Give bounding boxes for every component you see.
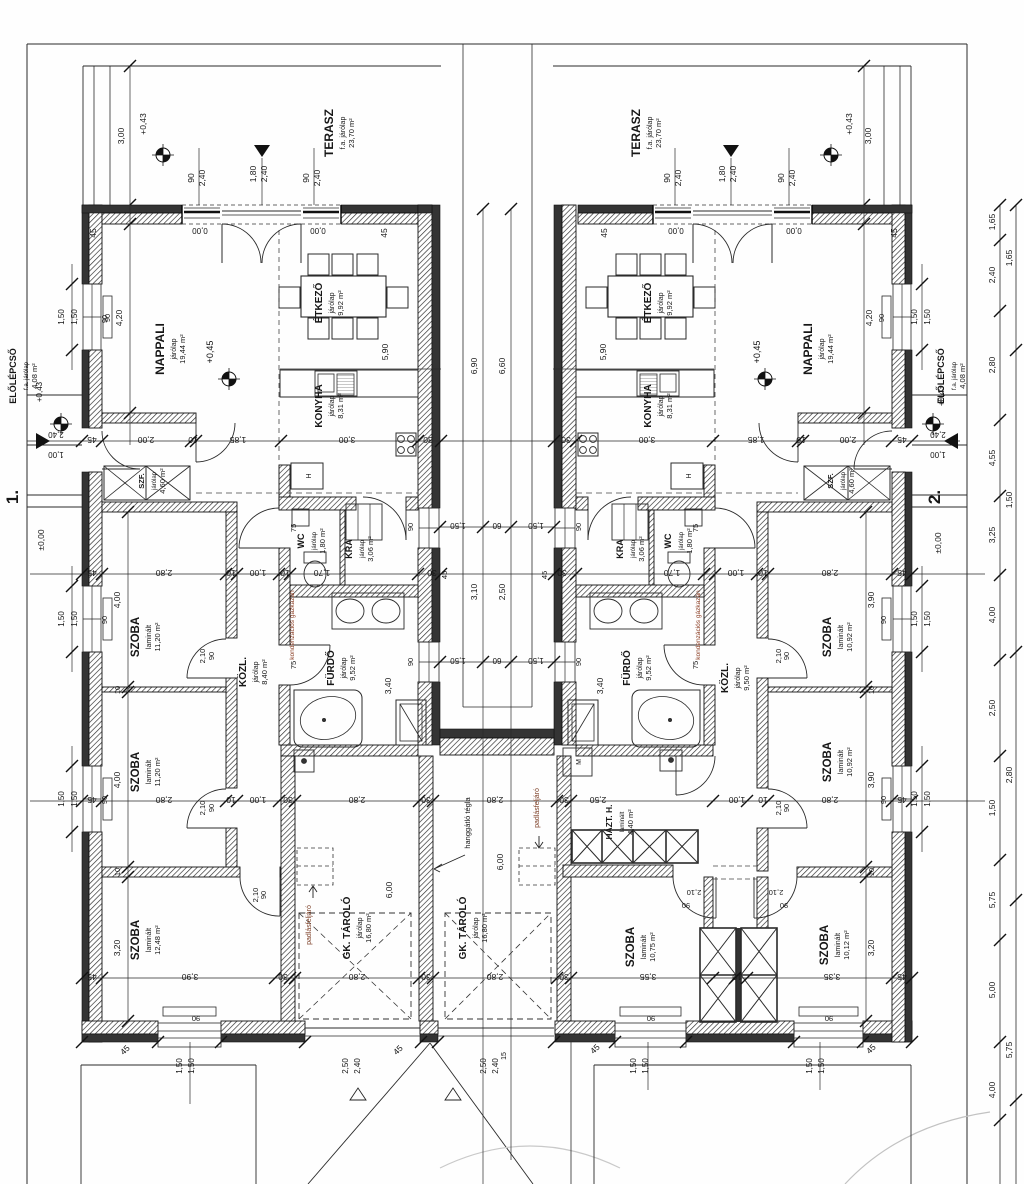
level mark terrace left (152, 144, 174, 166)
svg-text:90: 90 (825, 1014, 833, 1023)
svg-text:3,20: 3,20 (866, 939, 876, 956)
right exterior outer chain (1015, 205, 1017, 1184)
section dashed line left (196, 492, 418, 494)
svg-text:2,80: 2,80 (821, 795, 838, 805)
north wall left unit (82, 205, 182, 213)
svg-text:60: 60 (492, 521, 501, 530)
svg-text:1,50: 1,50 (57, 611, 66, 627)
svg-text:2,50: 2,50 (341, 1058, 350, 1074)
svg-text:3,90: 3,90 (866, 771, 876, 788)
dim row C line (30, 800, 985, 802)
svg-text:3,00: 3,00 (863, 127, 873, 144)
svg-text:járólap: járólap (735, 667, 742, 689)
svg-text:9,92 m²: 9,92 m² (336, 290, 345, 316)
svg-text:90: 90 (259, 891, 268, 899)
svg-text:90: 90 (574, 523, 583, 531)
svg-text:kondenzációs gázkazán: kondenzációs gázkazán (289, 590, 296, 660)
wall vestibule north left (102, 413, 196, 423)
svg-text:kondenzációs gázkazán: kondenzációs gázkazán (695, 590, 702, 660)
svg-text:23,70 m²: 23,70 m² (654, 118, 663, 148)
svg-text:2,50: 2,50 (479, 1058, 488, 1074)
stove left (396, 433, 416, 456)
svg-text:1,50: 1,50 (923, 309, 932, 325)
svg-text:1.: 1. (3, 490, 22, 504)
dashed wall line over terrace door left (182, 204, 341, 206)
svg-text:1,50: 1,50 (57, 309, 66, 325)
svg-text:90: 90 (782, 652, 791, 660)
svg-text:2,80: 2,80 (155, 795, 172, 805)
svg-text:45: 45 (87, 435, 97, 445)
svg-text:2,40: 2,40 (353, 1058, 362, 1074)
svg-text:SZOBA: SZOBA (625, 927, 637, 967)
site boundary (27, 43, 967, 45)
svg-text:járólap: járólap (341, 657, 348, 679)
svg-text:laminált: laminált (146, 625, 153, 649)
svg-text:3,90: 3,90 (866, 591, 876, 608)
corridor stub walls right (704, 877, 713, 928)
svg-text:1,50: 1,50 (70, 791, 79, 807)
svg-text:4,60 m²: 4,60 m² (158, 468, 167, 494)
utility wardrobe right (572, 830, 698, 863)
window szoba south right a (615, 1023, 686, 1047)
svg-text:SZOBA: SZOBA (130, 752, 142, 792)
svg-text:TERASZ: TERASZ (629, 109, 643, 157)
svg-text:GK. TÁROLÓ: GK. TÁROLÓ (456, 896, 469, 959)
svg-text:4,00: 4,00 (112, 771, 122, 788)
svg-text:2,40: 2,40 (259, 165, 269, 182)
svg-text:1,00: 1,00 (728, 795, 745, 805)
window szoba3 south left (158, 1023, 221, 1047)
wall szoba1/szoba2 right (768, 687, 892, 692)
level arrow right (944, 433, 958, 449)
svg-text:SZOBA: SZOBA (822, 742, 834, 782)
terrace french door right (692, 224, 694, 263)
gk storage cross left (299, 913, 411, 1019)
svg-text:WC: WC (663, 533, 673, 548)
svg-text:5,75: 5,75 (987, 891, 997, 908)
svg-text:2,40: 2,40 (491, 1058, 500, 1074)
dim row A line (27, 440, 960, 442)
svg-text:10: 10 (113, 868, 122, 876)
svg-text:16,80 m²: 16,80 m² (364, 913, 373, 943)
svg-text:járólap: járólap (329, 395, 336, 417)
svg-text:4,20: 4,20 (864, 309, 874, 326)
washing machine symbol right unit (563, 748, 592, 776)
svg-text:1,50: 1,50 (910, 611, 919, 627)
wc toilet left (304, 561, 326, 587)
radiator nappali west (103, 296, 112, 338)
svg-text:1,50: 1,50 (57, 791, 66, 807)
svg-text:1,50: 1,50 (450, 656, 466, 665)
svg-text:10,92 m²: 10,92 m² (845, 747, 854, 777)
bathroom north wall right (576, 585, 704, 597)
svg-text:1,80 m²: 1,80 m² (318, 528, 327, 554)
terrace door closed line left (222, 210, 301, 212)
svg-text:75: 75 (289, 524, 298, 532)
door szoba 10,12 right (753, 877, 755, 918)
svg-text:1,80: 1,80 (717, 165, 727, 182)
svg-text:1,00: 1,00 (930, 450, 946, 459)
svg-text:1,85: 1,85 (747, 435, 764, 445)
svg-text:45: 45 (897, 795, 907, 805)
svg-text:5,90: 5,90 (380, 343, 390, 360)
shower left (396, 700, 426, 745)
svg-text:2,40: 2,40 (987, 266, 997, 283)
svg-text:3,35: 3,35 (823, 972, 840, 982)
svg-text:járólap: járólap (658, 395, 665, 417)
svg-text:1,50: 1,50 (70, 309, 79, 325)
pavement rectangle bottom left (81, 1064, 256, 1066)
east wall right unit (905, 205, 912, 284)
svg-text:2,10: 2,10 (198, 649, 207, 664)
svg-text:3,55: 3,55 (639, 972, 656, 982)
dim row D line (82, 977, 912, 979)
svg-text:90: 90 (192, 1014, 200, 1023)
svg-text:3,00: 3,00 (116, 127, 126, 144)
svg-text:10: 10 (188, 435, 198, 445)
svg-text:KRA: KRA (615, 539, 625, 559)
svg-text:45: 45 (897, 568, 907, 578)
door wc left (239, 547, 279, 549)
svg-text:10: 10 (732, 972, 742, 982)
svg-text:9,52 m²: 9,52 m² (644, 655, 653, 681)
svg-text:2,80: 2,80 (486, 972, 503, 982)
courtyard wall left unit (418, 205, 432, 508)
attic hatch left (297, 848, 333, 885)
svg-text:45: 45 (897, 972, 907, 982)
radiator szoba1 east (882, 598, 891, 640)
svg-text:45: 45 (87, 568, 97, 578)
window szoba2 east right (893, 766, 911, 832)
svg-text:30: 30 (559, 795, 569, 805)
svg-text:3,06 m²: 3,06 m² (366, 536, 375, 562)
svg-text:45: 45 (599, 228, 609, 238)
svg-text:4,00: 4,00 (987, 1081, 997, 1098)
svg-text:padlásfeljáró: padlásfeljáró (534, 788, 541, 828)
door vestibule-living right (797, 423, 799, 462)
wc toilet right (668, 561, 690, 587)
svg-text:2,80: 2,80 (1004, 766, 1014, 783)
svg-text:SZOBA: SZOBA (130, 920, 142, 960)
svg-text:45: 45 (897, 435, 907, 445)
svg-text:2,40: 2,40 (728, 165, 738, 182)
wall vestibule north right (798, 413, 892, 423)
courtyard window dims bottom (440, 661, 554, 663)
svg-text:járólap: járólap (473, 917, 480, 939)
svg-text:11,20 m²: 11,20 m² (153, 757, 162, 787)
svg-text:2,10: 2,10 (769, 888, 784, 897)
svg-text:járólap: járólap (819, 338, 826, 360)
svg-text:90: 90 (207, 652, 216, 660)
svg-text:járólap: járólap (171, 338, 178, 360)
svg-text:3,90: 3,90 (181, 972, 198, 982)
svg-text:6,60: 6,60 (497, 357, 507, 374)
courtyard window left a (419, 508, 439, 548)
svg-text:3,25: 3,25 (987, 526, 997, 543)
west wall left unit (82, 205, 89, 284)
radiator nappali east (882, 296, 891, 338)
svg-text:3,00: 3,00 (338, 435, 355, 445)
level mark terrace right (820, 144, 842, 166)
division line right (531, 44, 533, 707)
division line left (462, 44, 464, 707)
svg-text:NAPPALI: NAPPALI (153, 323, 167, 375)
entry door right (854, 468, 892, 470)
svg-text:járólap: járólap (637, 657, 644, 679)
svg-text:2,80: 2,80 (348, 972, 365, 982)
kitchen south wall right (638, 497, 715, 510)
svg-text:3,00: 3,00 (638, 435, 655, 445)
svg-text:GK. TÁROLÓ: GK. TÁROLÓ (340, 896, 353, 959)
level mark entry left (50, 413, 72, 435)
svg-text:90: 90 (682, 901, 690, 910)
svg-text:10,12 m²: 10,12 m² (842, 930, 851, 960)
level arrow left (36, 433, 50, 449)
fridge right (671, 463, 703, 489)
corridor east wall right (757, 512, 768, 638)
pantry shelf left (346, 504, 382, 540)
svg-text:60: 60 (492, 656, 501, 665)
door wc right (715, 547, 755, 549)
courtyard window left b (419, 642, 439, 682)
svg-text:8,31 m²: 8,31 m² (336, 393, 345, 419)
svg-text:1,50: 1,50 (817, 1058, 826, 1074)
svg-text:1,50: 1,50 (187, 1058, 196, 1074)
door szoba1 left (187, 677, 226, 679)
svg-text:2,80: 2,80 (821, 568, 838, 578)
svg-text:30: 30 (278, 972, 288, 982)
attic hatch right (519, 848, 555, 885)
room divider dashed left (278, 230, 280, 462)
bottom window dims (76, 1036, 88, 1048)
svg-text:1,50: 1,50 (641, 1058, 650, 1074)
svg-text:1,50: 1,50 (528, 521, 544, 530)
bathtub right (632, 690, 700, 747)
fridge left (291, 463, 323, 489)
szoba vertical dims right (865, 512, 867, 1021)
svg-text:4,20: 4,20 (114, 309, 124, 326)
svg-text:90: 90 (780, 901, 788, 910)
svg-text:0,00: 0,00 (786, 226, 802, 235)
terrace window right unit a (655, 211, 691, 214)
nappali vertical dim left (129, 205, 131, 445)
svg-text:2,00: 2,00 (137, 435, 154, 445)
door utility right (675, 756, 677, 795)
svg-text:45: 45 (379, 228, 389, 238)
window szoba2 west (83, 766, 101, 832)
svg-text:45: 45 (440, 571, 449, 579)
svg-text:1,50: 1,50 (70, 611, 79, 627)
vestibule wardrobe right (804, 466, 890, 500)
svg-text:90: 90 (406, 658, 415, 666)
bathroom south walls band (281, 745, 418, 756)
kitchen dim 5,90 right (553, 368, 714, 370)
svg-text:1,50: 1,50 (923, 791, 932, 807)
svg-text:90: 90 (879, 796, 888, 804)
svg-text:6,00: 6,00 (495, 853, 505, 870)
szoba vertical dims left (127, 512, 129, 1021)
wall szoba2/szoba3 left (102, 867, 240, 877)
svg-text:4,08 m²: 4,08 m² (30, 363, 39, 389)
wc basin left (292, 509, 309, 526)
gk storage cross right (445, 913, 551, 1019)
window szoba1 east right (893, 586, 911, 652)
svg-text:4,00: 4,00 (987, 606, 997, 623)
svg-text:1,50: 1,50 (923, 611, 932, 627)
svg-text:KÖZL.: KÖZL. (236, 657, 249, 687)
storage west wall left (281, 756, 295, 1021)
svg-text:SZOBA: SZOBA (822, 617, 834, 657)
svg-text:1,80: 1,80 (248, 165, 258, 182)
door szoba3 left (279, 877, 281, 916)
svg-text:45: 45 (889, 228, 899, 238)
svg-text:5,00: 5,00 (987, 981, 997, 998)
right exterior dim chain (999, 205, 1001, 1184)
svg-text:30: 30 (423, 435, 433, 445)
svg-text:45: 45 (87, 795, 97, 805)
svg-text:f.a. járólap: f.a. járólap (647, 117, 654, 150)
svg-text:1,50: 1,50 (175, 1058, 184, 1074)
bathroom north wall left (290, 585, 418, 597)
terrace edge lines left unit (83, 65, 441, 67)
svg-text:9,92 m²: 9,92 m² (665, 290, 674, 316)
svg-text:90: 90 (301, 173, 311, 183)
svg-text:2,50: 2,50 (497, 583, 507, 600)
svg-text:KONYHA: KONYHA (314, 384, 325, 427)
svg-text:FÜRDŐ: FÜRDŐ (324, 650, 337, 686)
svg-text:1,80 m²: 1,80 m² (685, 528, 694, 554)
svg-text:2,10: 2,10 (198, 801, 207, 816)
level mark entry right (922, 413, 944, 435)
door vestibule-living left (195, 423, 197, 462)
svg-text:10,75 m²: 10,75 m² (648, 932, 657, 962)
svg-text:1,50: 1,50 (450, 521, 466, 530)
svg-text:1,65: 1,65 (1004, 249, 1014, 266)
svg-text:1,00: 1,00 (48, 450, 64, 459)
svg-text:45: 45 (87, 972, 97, 982)
courtyard window right a (555, 508, 575, 548)
svg-text:2,80: 2,80 (486, 795, 503, 805)
door szoba 10,75 right (715, 877, 717, 918)
svg-text:±0,00: ±0,00 (36, 529, 46, 550)
svg-text:90: 90 (574, 658, 583, 666)
driveway arc bottom right (845, 1112, 990, 1184)
wc/pantry divider right (649, 510, 654, 585)
svg-text:3,06 m²: 3,06 m² (637, 536, 646, 562)
svg-text:ÉTKEZŐ: ÉTKEZŐ (312, 283, 325, 324)
svg-text:WC: WC (296, 533, 306, 548)
svg-text:NAPPALI: NAPPALI (801, 323, 815, 375)
dim row B line (30, 573, 985, 575)
svg-text:járólap: járólap (253, 661, 260, 683)
bath basins right (590, 593, 662, 629)
kitchen south wall left (279, 497, 356, 510)
front steps left (27, 394, 82, 396)
svg-text:1,50: 1,50 (910, 791, 919, 807)
stove right (578, 433, 598, 456)
svg-text:H: H (686, 473, 693, 478)
corridor stub dashed right (713, 865, 757, 867)
svg-text:10: 10 (113, 686, 122, 694)
svg-text:2,10: 2,10 (687, 888, 702, 897)
svg-text:járólap: járólap (357, 917, 364, 939)
svg-text:10,92 m²: 10,92 m² (845, 622, 854, 652)
svg-text:0,00: 0,00 (310, 226, 326, 235)
svg-text:KONYHA: KONYHA (643, 384, 654, 427)
svg-text:járólap: járólap (329, 292, 336, 314)
svg-text:2,40: 2,40 (787, 169, 797, 186)
svg-text:FÜRDŐ: FÜRDŐ (620, 650, 633, 686)
terrace edge lines right unit (553, 65, 911, 67)
szoba3 window centre line (189, 1042, 191, 1104)
svg-text:2,40: 2,40 (312, 169, 322, 186)
svg-text:H: H (306, 473, 313, 478)
svg-text:4,08 m²: 4,08 m² (958, 363, 967, 389)
svg-text:90: 90 (776, 173, 786, 183)
svg-text:1,50: 1,50 (1004, 491, 1014, 508)
svg-text:10: 10 (280, 568, 290, 578)
window szoba south right b (794, 1023, 863, 1047)
svg-text:laminált: laminált (641, 935, 648, 959)
svg-text:6,90: 6,90 (469, 357, 479, 374)
svg-text:3,10: 3,10 (469, 583, 479, 600)
svg-text:45: 45 (88, 228, 98, 238)
svg-text:HÁZT. H.: HÁZT. H. (604, 805, 614, 840)
door pantry left (405, 497, 407, 540)
courtyard south wall (440, 729, 554, 738)
door pantry right (587, 497, 589, 540)
dining table left (301, 276, 386, 317)
svg-text:1,70: 1,70 (313, 568, 330, 578)
svg-text:10: 10 (796, 435, 806, 445)
corridor west wall right (704, 465, 715, 508)
courtyard window right b (555, 642, 575, 682)
corridor west wall left (226, 512, 237, 638)
svg-text:10: 10 (867, 868, 876, 876)
radiator szoba1 west (103, 598, 112, 640)
window szoba1 west (83, 586, 101, 652)
svg-text:90: 90 (100, 796, 109, 804)
door szoba2 right (768, 827, 807, 829)
svg-text:ÉTKEZŐ: ÉTKEZŐ (641, 283, 654, 324)
svg-text:1,00: 1,00 (727, 568, 744, 578)
svg-text:30: 30 (427, 568, 437, 578)
svg-text:laminált: laminált (838, 750, 845, 774)
radiator szoba2 west (103, 778, 112, 820)
svg-text:ELŐLÉPCSŐ: ELŐLÉPCSŐ (935, 348, 946, 404)
svg-text:90: 90 (186, 173, 196, 183)
svg-text:90: 90 (782, 804, 791, 812)
svg-text:±0,00: ±0,00 (933, 532, 943, 553)
built-in wardrobe diamonds right (736, 928, 741, 1022)
south wall centre pier (420, 1021, 438, 1034)
svg-text:90: 90 (647, 1014, 655, 1023)
svg-text:4,60 m²: 4,60 m² (847, 468, 856, 494)
svg-text:2,40: 2,40 (673, 169, 683, 186)
courtyard dim lines 6,90 6,60 (482, 209, 484, 1184)
door szoba2 left (187, 827, 226, 829)
terrace window right unit b (774, 211, 810, 214)
svg-text:2,50: 2,50 (987, 699, 997, 716)
svg-text:1,70: 1,70 (663, 568, 680, 578)
svg-text:5,90: 5,90 (598, 343, 608, 360)
storage door sill right (438, 1027, 554, 1029)
terrace window left of door (184, 211, 220, 214)
svg-text:0,00: 0,00 (668, 226, 684, 235)
svg-text:10: 10 (758, 568, 768, 578)
terrace door dims right (674, 148, 676, 205)
kitchen dim 5,90 left (280, 368, 441, 370)
